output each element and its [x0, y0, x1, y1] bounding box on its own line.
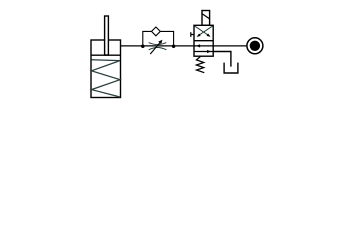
cylinder return spring	[92, 60, 121, 97]
bottom position path 2 (arrow right)	[194, 51, 213, 53]
pressure source inner dot	[250, 41, 260, 51]
directional valve body	[194, 25, 213, 56]
top position crossed path B	[199, 26, 212, 35]
flow control valve bypass left leg	[143, 31, 152, 46]
throttle adjustment arrow	[150, 42, 160, 54]
top position crossed path A	[195, 26, 208, 35]
wire: valve to tank	[213, 52, 231, 67]
throttle upper arc	[149, 43, 167, 45]
pressure source outer circle	[247, 38, 263, 54]
flow control valve bypass right leg	[160, 31, 173, 46]
throttle lower arc	[149, 47, 167, 49]
valve return spring	[196, 57, 204, 73]
blocked port mark left	[191, 34, 194, 36]
plunger actuator	[202, 11, 210, 26]
cylinder body	[91, 40, 121, 98]
tank symbol	[224, 63, 238, 73]
junction dot right	[172, 44, 176, 48]
junction dot left	[141, 44, 145, 48]
check valve diamond	[152, 27, 161, 36]
wire: cylinder port to valve	[121, 45, 195, 47]
wire: valve to source	[213, 45, 246, 47]
piston	[91, 54, 121, 56]
bottom position path 1 (arrow left)	[194, 45, 213, 47]
directional valve divider	[194, 40, 213, 42]
piston rod	[105, 16, 109, 55]
